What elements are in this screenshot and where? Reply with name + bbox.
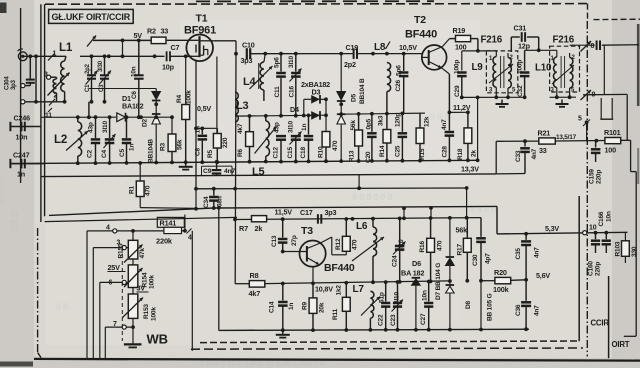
- node dot r7: [233, 217, 402, 222]
- capacitor C2: [87, 115, 101, 165]
- inductor L3: [235, 92, 238, 122]
- svg-text:4: 4: [106, 224, 110, 231]
- capacitor C10: [241, 41, 255, 65]
- svg-text:1n: 1n: [195, 126, 202, 133]
- svg-text:3l30: 3l30: [98, 60, 104, 72]
- ground symbol f216 b: [556, 100, 569, 107]
- pin 9 arrow: [581, 90, 596, 100]
- potentiometer R154: [124, 259, 156, 289]
- svg-text:4: 4: [188, 235, 192, 242]
- filter box F216 second: [550, 46, 580, 92]
- svg-text:C28: C28: [442, 146, 449, 158]
- ground symbol f216 a: [496, 100, 509, 107]
- module dashed bottom border: [191, 348, 583, 349]
- svg-text:R7: R7: [239, 224, 248, 233]
- T1 source wire: [195, 60, 197, 189]
- resistor R21: [538, 129, 556, 156]
- svg-text:C32: C32: [517, 85, 524, 97]
- diode D3: [311, 99, 328, 131]
- capacitor C13: [271, 219, 298, 251]
- svg-text:R11: R11: [332, 308, 339, 320]
- svg-text:2p2: 2p2: [344, 60, 356, 69]
- svg-text:C36: C36: [515, 304, 522, 316]
- ground symbol R4: [179, 162, 193, 169]
- capacitor C25: [395, 112, 408, 161]
- svg-text:100: 100: [605, 146, 617, 155]
- pin 1 tick: [48, 51, 57, 61]
- pot chain ground: [124, 318, 142, 347]
- resistor R6: [237, 116, 253, 164]
- svg-text:R9: R9: [302, 302, 309, 310]
- svg-text:C17: C17: [300, 208, 313, 217]
- gang dashed line: [121, 247, 123, 341]
- capacitor C160: [588, 231, 602, 276]
- svg-text:C30: C30: [472, 254, 479, 266]
- label L1: [59, 42, 73, 54]
- capacitor C247: [10, 151, 44, 179]
- long vertical from drain: [234, 54, 237, 284]
- label 5.3V: [545, 224, 559, 233]
- svg-text:C8: C8: [195, 147, 202, 156]
- label L2: [54, 134, 67, 146]
- resistor R103: [615, 232, 639, 263]
- svg-text:L4: L4: [243, 76, 257, 88]
- svg-text:470: 470: [437, 240, 444, 251]
- node dots bias row: [194, 186, 468, 191]
- svg-text:43p: 43p: [274, 122, 281, 133]
- svg-text:4k7: 4k7: [249, 289, 261, 298]
- inductor L2: [76, 115, 82, 165]
- wire R141 right: [182, 215, 193, 242]
- L10 winding A: [553, 50, 556, 97]
- svg-text:47k: 47k: [139, 248, 146, 259]
- svg-text:4n7: 4n7: [224, 168, 236, 175]
- supply bus 13V: [41, 174, 496, 177]
- svg-text:C22: C22: [378, 314, 385, 326]
- svg-text:100k: 100k: [493, 285, 510, 294]
- svg-text:88 85: 88 85: [0, 178, 7, 205]
- label 10.5V: [399, 43, 417, 52]
- svg-text:R15: R15: [419, 148, 426, 160]
- label WB: [147, 332, 168, 347]
- svg-text:C160: C160: [588, 261, 595, 276]
- svg-text:R155: R155: [118, 243, 125, 258]
- capacitor C11: [274, 52, 286, 116]
- svg-text:C2: C2: [87, 149, 94, 158]
- svg-text:8 8 0 0: 8 8 0 0: [470, 204, 496, 214]
- OIRT output bracket: [624, 335, 636, 337]
- resistor R13: [349, 112, 363, 162]
- svg-text:56k: 56k: [350, 120, 357, 131]
- svg-text:10n: 10n: [16, 133, 28, 142]
- module dash-dot left border: [38, 228, 41, 358]
- svg-text:33: 33: [161, 27, 169, 36]
- svg-text:C34: C34: [203, 196, 210, 208]
- diode D6: [446, 216, 455, 285]
- capacitor C1 variable: [85, 54, 98, 103]
- svg-text:83 8: 83 8: [9, 211, 21, 232]
- capacitor C7: [162, 43, 179, 72]
- svg-text:C27: C27: [420, 313, 427, 325]
- wire rail link: [194, 189, 198, 211]
- resistor R16: [419, 216, 444, 283]
- L9 arrow: [489, 64, 513, 83]
- svg-text:13,5/17: 13,5/17: [556, 134, 577, 141]
- svg-text:8: 8: [591, 43, 595, 50]
- wire gate line: [80, 55, 165, 57]
- svg-text:10n: 10n: [606, 211, 613, 222]
- label BF440 T3: [324, 262, 355, 274]
- svg-text:0p5: 0p5: [366, 118, 373, 129]
- transistor T2 BF440: [422, 45, 447, 70]
- wire source node row: [194, 126, 217, 130]
- wire pin8 out: [570, 44, 639, 47]
- svg-text:0 8: 0 8: [55, 302, 69, 313]
- T1 drain wire: [213, 41, 236, 54]
- label L8: [374, 42, 390, 54]
- resistor R14: [378, 112, 391, 161]
- svg-text:R2: R2: [147, 27, 156, 36]
- svg-text:C166: C166: [598, 211, 605, 226]
- label L5: [252, 166, 265, 178]
- svg-text:C13: C13: [271, 235, 278, 247]
- label T2: [405, 14, 437, 41]
- node dot ant1: [28, 54, 32, 58]
- capacitor C304: [5, 56, 35, 90]
- T3 emitter drop: [312, 267, 314, 284]
- svg-text:2p2: 2p2: [85, 63, 91, 74]
- svg-text:R153: R153: [143, 304, 150, 319]
- resistor R2: [147, 27, 168, 44]
- capacitor C19: [344, 43, 358, 69]
- L2 tuning arrow: [66, 131, 88, 151]
- L9 core: [501, 56, 504, 88]
- wire pin4 drop long: [191, 231, 193, 351]
- svg-text:CCIR: CCIR: [591, 319, 610, 328]
- label F216 second: [553, 35, 575, 46]
- svg-text:1: 1: [53, 51, 57, 58]
- svg-text:D4: D4: [290, 105, 299, 114]
- svg-text:5,6V: 5,6V: [536, 271, 550, 280]
- label BA182 D6: [401, 269, 424, 278]
- resistor R141: [156, 217, 184, 245]
- svg-text:C10: C10: [242, 41, 255, 50]
- svg-text:C24: C24: [392, 255, 399, 267]
- wire R19 to tank: [471, 39, 480, 53]
- module dash-dot right border: [586, 21, 588, 357]
- label BB104B: [148, 139, 155, 163]
- inner box right border: [578, 196, 580, 341]
- wire D2 top link: [89, 89, 156, 102]
- svg-text:BA182: BA182: [122, 102, 144, 111]
- svg-text:L9: L9: [472, 62, 484, 73]
- diode D7: [412, 263, 442, 330]
- wire c30 bottom drop: [480, 281, 482, 330]
- svg-text:3l10: 3l10: [288, 55, 295, 68]
- svg-text:BB104 B: BB104 B: [359, 78, 366, 104]
- label L3: [236, 100, 249, 112]
- page bottom border: [34, 359, 640, 361]
- L10 winding B: [570, 53, 573, 97]
- svg-text:43p: 43p: [88, 122, 95, 133]
- scan edge right dark strip: [637, 24, 640, 184]
- label 5V: [134, 31, 143, 40]
- svg-text:WB: WB: [147, 332, 168, 347]
- svg-text:R3: R3: [160, 143, 167, 151]
- svg-text:11,5V: 11,5V: [275, 208, 293, 217]
- wire pin9 drop: [626, 94, 628, 140]
- svg-text:L5: L5: [252, 166, 265, 178]
- resistor R17: [456, 218, 472, 283]
- pin 5 junction: [578, 116, 590, 141]
- capacitor C30: [472, 218, 492, 283]
- svg-text:33: 33: [539, 146, 547, 155]
- svg-text:C159: C159: [589, 169, 596, 184]
- potentiometer R155: [118, 229, 147, 263]
- svg-text:10,8V: 10,8V: [315, 285, 333, 294]
- T3 collector path: [321, 237, 347, 255]
- svg-text:4n7: 4n7: [441, 119, 448, 130]
- label D1 BA182: [122, 94, 144, 111]
- svg-text:C19: C19: [346, 43, 359, 52]
- svg-text:C7: C7: [171, 43, 180, 52]
- svg-text:BF440: BF440: [324, 262, 355, 274]
- transistor T3 BF440: [281, 241, 326, 267]
- label 2xBA182: [301, 80, 330, 89]
- label D2: [142, 118, 149, 127]
- svg-text:27p: 27p: [291, 235, 298, 246]
- svg-text:120p: 120p: [395, 113, 402, 127]
- capacitor C33: [496, 139, 538, 174]
- capacitor C166: [598, 211, 613, 253]
- svg-text:R18: R18: [457, 148, 464, 160]
- svg-text:BF440: BF440: [405, 29, 437, 41]
- wire 13V to bias: [358, 175, 360, 189]
- ground symbol bottom: [276, 330, 290, 337]
- wire 11.2V node: [448, 110, 470, 114]
- rail 5.3V sloped: [49, 206, 628, 234]
- svg-text:L7: L7: [353, 284, 365, 295]
- T1 aux drop R5: [216, 57, 218, 134]
- L9 winding A: [493, 51, 496, 97]
- svg-text:10: 10: [589, 225, 597, 232]
- capacitor C12: [273, 122, 287, 163]
- svg-text:25V: 25V: [108, 263, 121, 272]
- svg-text:C35: C35: [515, 248, 522, 260]
- svg-text:R101: R101: [604, 128, 621, 137]
- label 13.5/17: [556, 134, 577, 141]
- diode D4: [304, 95, 328, 116]
- svg-text:3p3: 3p3: [241, 56, 253, 65]
- svg-text:C15: C15: [287, 147, 294, 159]
- svg-text:330: 330: [631, 246, 638, 257]
- svg-text:3l10: 3l10: [398, 239, 405, 252]
- module left double border line A: [40, 4, 42, 222]
- capacitor C8: [195, 126, 208, 164]
- svg-text:10,5V: 10,5V: [399, 43, 417, 52]
- varactor column D5: [337, 52, 346, 161]
- wire R20 row: [481, 278, 528, 282]
- L9 pin labels: [489, 55, 516, 94]
- svg-text:20k: 20k: [319, 302, 326, 313]
- wire pin3 exit: [92, 248, 94, 360]
- svg-text:R14: R14: [379, 145, 386, 157]
- capacitor C17: [318, 208, 337, 224]
- wire tank feed: [87, 102, 91, 119]
- svg-text:0,5V: 0,5V: [197, 104, 211, 113]
- AGC arrow: [87, 36, 96, 47]
- antenna coax connector: [18, 49, 28, 61]
- capacitor C16 variable: [288, 52, 302, 116]
- inductor L4: [259, 52, 267, 101]
- pin 10: [583, 225, 597, 235]
- wire R101 end: [631, 140, 637, 336]
- bias wire y188: [196, 187, 467, 190]
- resistor R3: [160, 117, 184, 164]
- module top-right dashed corner: [588, 4, 640, 21]
- svg-text:C1: C1: [85, 84, 91, 92]
- capacitor C15 variable: [287, 120, 302, 163]
- title box GL.UKF OIRT/CCIR: [49, 9, 134, 23]
- bottom bus: [219, 327, 529, 332]
- label 11.5V: [275, 208, 293, 217]
- svg-text:L8: L8: [374, 42, 386, 53]
- transistor T1 BF961: [186, 35, 213, 62]
- capacitor C26: [395, 52, 408, 114]
- svg-text:BB104B: BB104B: [148, 139, 155, 163]
- node dot a: [107, 54, 111, 58]
- T2 emitter wire: [442, 68, 450, 113]
- svg-text:10n: 10n: [131, 66, 138, 77]
- label OIRT: [612, 340, 630, 349]
- label CCIR: [591, 319, 610, 328]
- resistor R7: [239, 216, 267, 233]
- svg-text:100k: 100k: [149, 275, 156, 289]
- L4 tuning arrow: [250, 66, 273, 89]
- svg-text:BA 182: BA 182: [401, 269, 424, 278]
- L7 arrow: [361, 297, 380, 316]
- wire antenna to L1: [23, 55, 66, 57]
- svg-text:C6: C6: [131, 91, 138, 99]
- capacitor C20: [365, 112, 377, 163]
- ground bus y163: [10, 160, 477, 163]
- svg-text:C14: C14: [269, 301, 276, 313]
- svg-text:F216: F216: [553, 35, 575, 46]
- 5V rail wire: [93, 39, 151, 41]
- capacitor C6: [131, 39, 144, 120]
- wire 11.5V row: [235, 218, 481, 220]
- page bottom-left smudge: [0, 362, 33, 367]
- svg-text:C4: C4: [101, 149, 108, 158]
- inductor L6: [371, 219, 377, 284]
- page corner mark top-left: [0, 3, 7, 14]
- wire v466: [465, 188, 469, 220]
- capacitor C9: [202, 160, 236, 176]
- svg-text:T1: T1: [196, 13, 208, 25]
- svg-text:3l10: 3l10: [394, 291, 401, 304]
- node dot b: [153, 54, 157, 58]
- label 0.5V: [197, 104, 211, 113]
- svg-text:51p: 51p: [379, 292, 386, 303]
- connector U shape: [600, 98, 613, 119]
- wire band switch row: [41, 116, 117, 118]
- label L4: [243, 76, 257, 88]
- svg-text:4k7: 4k7: [237, 123, 244, 134]
- filter box F216 first: [486, 51, 517, 93]
- svg-text:D6: D6: [412, 259, 421, 268]
- capacitor C28: [441, 112, 454, 160]
- svg-text:OIRT: OIRT: [612, 340, 630, 349]
- label D6: [412, 259, 421, 268]
- resistor R12: [335, 219, 359, 251]
- label T3: [301, 225, 313, 237]
- resistor R4: [176, 56, 193, 162]
- label L6: [356, 221, 368, 232]
- svg-text:220: 220: [222, 137, 229, 148]
- svg-text:56k: 56k: [177, 139, 184, 150]
- wire C7 to T1 gate1: [170, 55, 192, 57]
- resistor R8: [249, 271, 265, 298]
- L10 pin labels: [551, 55, 576, 94]
- svg-text:11: 11: [45, 112, 52, 119]
- inner box bottom border: [200, 341, 579, 343]
- svg-text:C31: C31: [514, 24, 527, 33]
- svg-text:R16: R16: [419, 241, 426, 253]
- svg-text:4n7: 4n7: [531, 148, 538, 159]
- capacitor C35: [515, 232, 541, 280]
- diode D8: [446, 285, 494, 330]
- capacitor C4 variable: [101, 115, 116, 165]
- svg-text:R1: R1: [129, 186, 136, 194]
- ground bus dots: [339, 158, 479, 163]
- output cap pin8: [597, 41, 600, 51]
- svg-text:C246: C246: [14, 114, 31, 123]
- svg-text:R19: R19: [453, 26, 466, 35]
- wire tank top: [462, 51, 497, 71]
- label 13.3V: [461, 165, 479, 174]
- svg-text:7: 7: [113, 321, 117, 328]
- label 5.6V: [536, 271, 550, 280]
- resistor R5: [207, 128, 229, 164]
- resistor R101: [595, 128, 621, 155]
- svg-text:10n: 10n: [422, 290, 429, 301]
- svg-text:220p: 220p: [595, 262, 602, 276]
- L10 arrow: [552, 65, 574, 84]
- capacitor C36: [515, 280, 541, 329]
- capacitor C23 variable: [390, 282, 403, 330]
- svg-text:1n: 1n: [301, 124, 308, 131]
- svg-text:12p: 12p: [518, 42, 531, 51]
- svg-text:3V: 3V: [137, 284, 146, 293]
- signal wire T1-T2: [251, 53, 422, 55]
- svg-text:2k: 2k: [255, 224, 264, 233]
- resistor R20: [493, 268, 511, 294]
- wire bottom link: [21, 100, 64, 104]
- svg-text:1n: 1n: [17, 170, 25, 179]
- svg-text:10p: 10p: [162, 63, 175, 72]
- svg-text:100p: 100p: [517, 60, 524, 74]
- node dot g1: [184, 54, 188, 58]
- wire pin4 row: [87, 224, 164, 233]
- svg-text:L2: L2: [54, 134, 67, 146]
- wire pin3 row: [93, 240, 128, 250]
- wire pin7 exit: [104, 327, 106, 360]
- svg-text:C304: C304: [5, 76, 11, 90]
- svg-text:470: 470: [145, 185, 152, 196]
- resistor R1: [129, 161, 197, 208]
- wire pin7 row: [105, 321, 135, 329]
- capacitor C29: [454, 60, 467, 98]
